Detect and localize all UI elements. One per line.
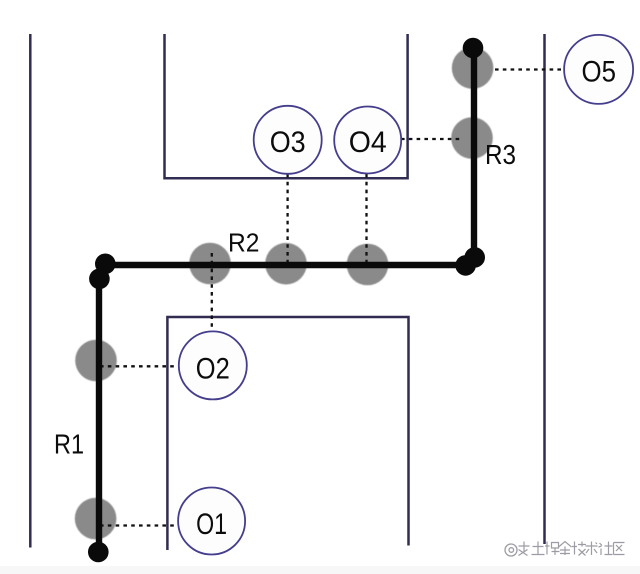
svg-text:O5: O5 — [582, 56, 617, 89]
road boundary left — [29, 34, 32, 548]
node R2 start — [95, 253, 116, 274]
road R1 line — [96, 271, 102, 552]
dotted link O2 vertical — [211, 253, 213, 332]
object O3 circle — [254, 106, 322, 174]
node R2 end — [455, 255, 476, 276]
road boundary right — [543, 34, 546, 544]
dotted link O5 horizontal — [495, 68, 563, 70]
object O4 circle — [334, 107, 401, 174]
稀 — [519, 542, 530, 556]
node R3 top — [463, 38, 484, 59]
gray point G-O2 on R1 — [75, 340, 117, 382]
gray point G-O4 on R2 — [347, 244, 389, 286]
node R1 top — [89, 269, 110, 290]
dotted link O2 horizontal — [100, 365, 180, 367]
object O5 circle — [564, 35, 633, 104]
技 — [572, 542, 586, 556]
掘 — [545, 542, 560, 556]
gray point G-O4b on R3 — [451, 117, 493, 159]
watermark — [505, 544, 517, 556]
金 — [559, 542, 572, 556]
dotted link O3 vertical — [286, 174, 288, 264]
node R3 bottom — [464, 247, 485, 268]
object O2 circle — [179, 331, 247, 399]
gray point G-O5 on R3 — [452, 47, 494, 89]
dotted link O1 — [100, 524, 179, 526]
node R1 bottom — [88, 542, 109, 563]
dotted link O4 vertical — [365, 174, 367, 264]
术 — [586, 542, 598, 556]
社 — [599, 542, 613, 556]
区 — [614, 543, 625, 555]
svg-text:O4: O4 — [349, 126, 387, 159]
svg-text:O1: O1 — [196, 508, 227, 541]
road boundary bottom-middle — [167, 317, 408, 550]
object O1 circle — [178, 488, 245, 555]
svg-text:R1: R1 — [54, 428, 84, 459]
gray point G-O3 on R2 — [265, 243, 307, 285]
gray point G-O2b on R2 — [189, 243, 231, 285]
svg-text:O3: O3 — [270, 126, 306, 159]
gray point G-O1 on R1 — [75, 498, 117, 540]
road R2 line — [101, 262, 470, 268]
dotted link O4 horizontal — [401, 138, 462, 140]
road R3 line — [471, 48, 477, 253]
土 — [532, 542, 545, 555]
road boundary top-middle U — [165, 34, 408, 178]
svg-text:R2: R2 — [228, 227, 259, 257]
svg-text:R3: R3 — [485, 139, 516, 170]
svg-text:O2: O2 — [196, 353, 230, 386]
